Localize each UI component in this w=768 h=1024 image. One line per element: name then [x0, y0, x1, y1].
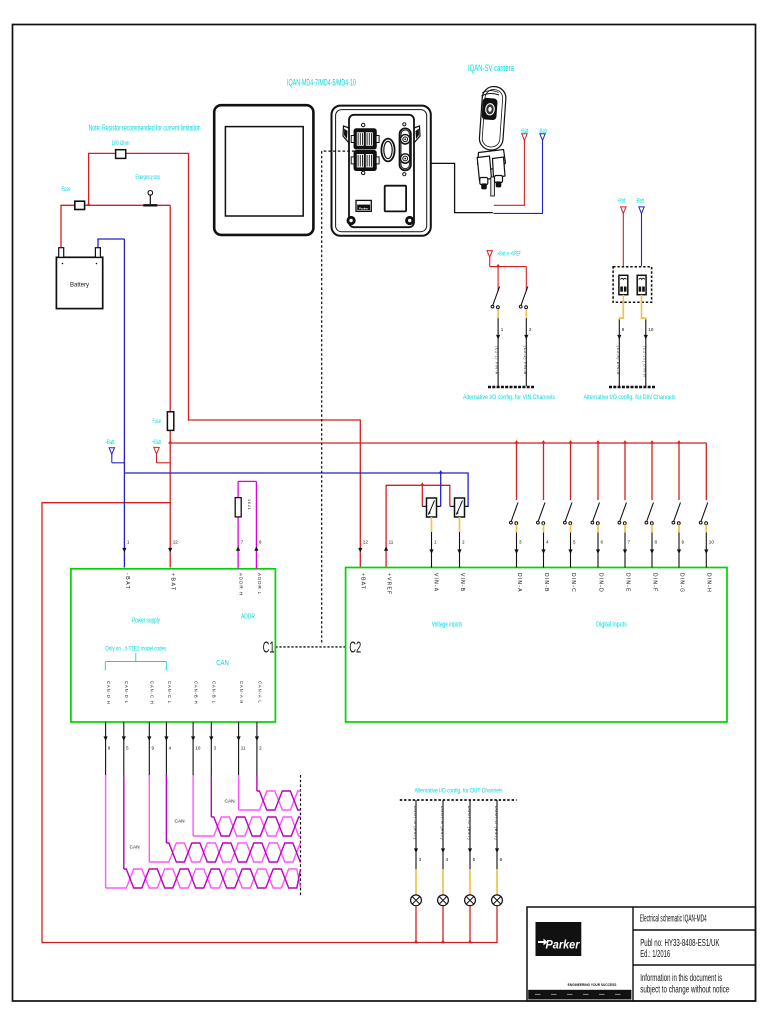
- svg-text:+Batt or +VREF: +Batt or +VREF: [498, 252, 522, 258]
- svg-text:(C2-10) DIN-H: (C2-10) DIN-H: [642, 346, 646, 378]
- svg-text:ENGINEERING YOUR SUCCESS: ENGINEERING YOUR SUCCESS: [568, 983, 617, 987]
- svg-text:DIN-E: DIN-E: [624, 573, 630, 593]
- svg-text:DIN-A: DIN-A: [516, 573, 522, 593]
- svg-text:CAN-B H: CAN-B H: [194, 681, 199, 705]
- svg-text:DOUT-A (EST): DOUT-A (EST): [413, 806, 417, 840]
- svg-text:-BAT: -BAT: [124, 573, 130, 590]
- svg-text:10: 10: [648, 327, 654, 332]
- svg-text:3: 3: [519, 540, 522, 545]
- svg-text:+Batt: +Batt: [152, 440, 161, 446]
- svg-text:1: 1: [434, 540, 437, 545]
- svg-text:CAN: CAN: [175, 819, 186, 825]
- svg-text:CAN-B L: CAN-B L: [212, 681, 217, 704]
- svg-text:12: 12: [173, 540, 179, 545]
- svg-text:CAN-C H: CAN-C H: [150, 681, 155, 705]
- svg-text:3: 3: [419, 857, 422, 862]
- svg-text:CAN: CAN: [130, 845, 141, 851]
- svg-text:+BAT: +BAT: [170, 573, 176, 592]
- svg-text:Power supply: Power supply: [132, 618, 160, 625]
- svg-text:11: 11: [241, 746, 246, 751]
- svg-text:+VREF: +VREF: [386, 573, 392, 595]
- svg-text:DOUT-C (EST): DOUT-C (EST): [467, 806, 471, 840]
- svg-text:+BAT: +BAT: [360, 573, 366, 590]
- svg-text:9: 9: [682, 540, 685, 545]
- svg-text:CAN-A L: CAN-A L: [257, 681, 262, 704]
- svg-text:DOUT-B (EST): DOUT-B (EST): [440, 806, 444, 840]
- svg-text:12: 12: [363, 540, 369, 545]
- svg-text:2: 2: [259, 746, 262, 751]
- svg-text:1: 1: [127, 540, 130, 545]
- svg-text:ADDR L: ADDR L: [257, 573, 262, 595]
- svg-text:2: 2: [529, 327, 532, 332]
- svg-text:6: 6: [601, 540, 604, 545]
- svg-text:IQAN-MD4-7/MD4-5/MD4-10: IQAN-MD4-7/MD4-5/MD4-10: [287, 77, 356, 88]
- svg-text:CAN: CAN: [216, 660, 229, 667]
- svg-text:3: 3: [214, 746, 217, 751]
- svg-text:ADDR: ADDR: [241, 614, 255, 621]
- svg-text:Parker: Parker: [359, 207, 369, 211]
- svg-text:Publ no: HY33-8408-ES1/UK: Publ no: HY33-8408-ES1/UK: [640, 938, 720, 949]
- svg-text:Fuse: Fuse: [152, 419, 161, 425]
- svg-text:DIN-B: DIN-B: [543, 573, 549, 593]
- svg-text:10: 10: [195, 746, 201, 751]
- svg-text:DIN-H: DIN-H: [706, 573, 712, 593]
- svg-text:DIN-C: DIN-C: [570, 573, 576, 593]
- svg-text:CAN-D L: CAN-D L: [124, 681, 129, 704]
- svg-text:Electrical schematic IQAN-MD4: Electrical schematic IQAN-MD4: [640, 913, 707, 924]
- svg-text:4: 4: [546, 540, 549, 545]
- svg-text:C1: C1: [263, 640, 275, 657]
- svg-text:Digital inputs: Digital inputs: [596, 622, 627, 629]
- svg-text:Alternative I/O config. for DI: Alternative I/O config. for DIN Channels: [584, 394, 677, 401]
- svg-text:CAN: CAN: [225, 799, 236, 805]
- svg-text:VIN-A: VIN-A: [432, 573, 438, 592]
- svg-text:DOUT-D (EST): DOUT-D (EST): [494, 806, 498, 840]
- svg-text:9: 9: [152, 746, 155, 751]
- svg-text:C2: C2: [349, 640, 361, 657]
- svg-text:CAN-D H: CAN-D H: [106, 681, 111, 705]
- svg-text:(C2-9) DIN-G: (C2-9) DIN-G: [616, 346, 620, 375]
- svg-text:Fuse: Fuse: [62, 187, 71, 193]
- svg-text:2: 2: [462, 540, 465, 545]
- svg-text:6: 6: [500, 857, 503, 862]
- svg-text:9: 9: [622, 327, 625, 332]
- svg-text:7: 7: [628, 540, 631, 545]
- svg-text:ADDR H: ADDR H: [239, 573, 244, 596]
- svg-text:8: 8: [655, 540, 658, 545]
- svg-text:6: 6: [259, 540, 262, 545]
- svg-text:-Batt: -Batt: [539, 129, 547, 135]
- svg-text:Emergency stop: Emergency stop: [135, 174, 160, 181]
- svg-text:CAN-A H: CAN-A H: [239, 681, 244, 704]
- svg-text:Information in this document i: Information in this document is: [640, 973, 722, 984]
- svg-text:1: 1: [501, 327, 504, 332]
- svg-text:(C2-2) VIN-B: (C2-2) VIN-B: [523, 346, 527, 375]
- svg-text:Alternative I/O config. for OU: Alternative I/O config. for OUT Channels: [415, 788, 504, 795]
- svg-text:5: 5: [473, 857, 476, 862]
- svg-text:100 Ohm: 100 Ohm: [112, 141, 130, 147]
- svg-text:DIN-F: DIN-F: [651, 573, 657, 592]
- svg-text:Parker: Parker: [546, 938, 581, 952]
- svg-text:5: 5: [573, 540, 576, 545]
- svg-text:5: 5: [126, 746, 129, 751]
- svg-text:4: 4: [446, 857, 449, 862]
- svg-text:-Batt: -Batt: [636, 199, 644, 205]
- svg-text:-Batt: -Batt: [106, 440, 115, 446]
- svg-text:1K21: 1K21: [247, 499, 251, 511]
- svg-text:7: 7: [241, 540, 244, 545]
- svg-text:DIN-G: DIN-G: [678, 573, 684, 593]
- svg-text:CAN-C L: CAN-C L: [167, 681, 172, 704]
- svg-text:+Batt: +Batt: [521, 129, 529, 135]
- svg-text:10: 10: [709, 540, 715, 545]
- svg-text:Note: Resistor recommended for: Note: Resistor recommended for current l…: [89, 124, 201, 133]
- svg-text:Battery: Battery: [70, 283, 89, 289]
- svg-text:VIN-B: VIN-B: [459, 573, 465, 592]
- svg-text:4: 4: [169, 746, 172, 751]
- svg-text:11: 11: [389, 540, 394, 545]
- svg-text:+Batt: +Batt: [617, 199, 625, 205]
- svg-text:Voltage inputs: Voltage inputs: [432, 622, 463, 629]
- svg-text:IQAN-SV camera: IQAN-SV camera: [468, 63, 514, 74]
- svg-text:Only on ..#-T1E2 model codes: Only on ..#-T1E2 model codes: [105, 646, 166, 653]
- svg-text:Alternative I/O config. for VI: Alternative I/O config. for VIN Channels: [463, 394, 556, 401]
- svg-text:DIN-D: DIN-D: [597, 573, 603, 593]
- svg-text:Ed.: 1/2016: Ed.: 1/2016: [640, 949, 670, 960]
- svg-text:subject to change without noti: subject to change without notice: [640, 985, 729, 996]
- svg-text:8: 8: [108, 746, 111, 751]
- svg-text:(C2-1) VIN-A: (C2-1) VIN-A: [495, 346, 499, 375]
